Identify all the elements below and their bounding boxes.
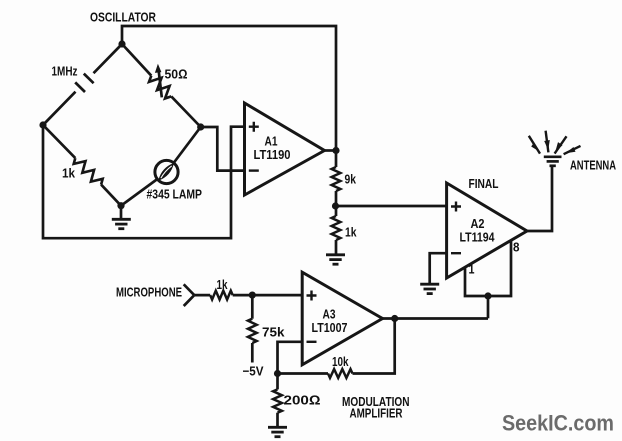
label MODULATION AMPLIFIER <box>342 394 410 421</box>
svg-text:8: 8 <box>513 240 520 255</box>
resistor 10k <box>328 369 353 378</box>
node: 9k/1k junction <box>332 202 339 209</box>
ground (A2 inverting input) <box>420 284 439 293</box>
svg-text:1k: 1k <box>345 225 357 240</box>
wire: junction down to modulation line <box>487 296 490 318</box>
wire: junction to A2 non-inverting input <box>336 205 447 208</box>
wire: mic to 1k <box>194 294 210 297</box>
ground (divider) <box>326 255 345 264</box>
svg-text:LT1007: LT1007 <box>312 320 348 335</box>
wire: A3 output to A2 feedback <box>383 317 489 320</box>
node: mic/75k junction <box>249 292 256 299</box>
svg-text:#345 LAMP: #345 LAMP <box>147 187 203 202</box>
svg-text:LT1194: LT1194 <box>460 230 496 245</box>
svg-text:LT1190: LT1190 <box>254 147 291 162</box>
ground (200Ω) <box>268 427 287 436</box>
wire: A3 inverting input to feedback node <box>278 342 303 374</box>
resistor 1k (divider) <box>332 216 341 240</box>
wire: bridge right node to A1 inverting input <box>201 127 245 171</box>
svg-text:AMPLIFIER: AMPLIFIER <box>350 406 403 421</box>
wire: pin 1 loop <box>465 241 511 297</box>
wire: 1k to ground <box>335 240 338 255</box>
svg-text:MICROPHONE: MICROPHONE <box>116 285 182 300</box>
wire: junction to 75k <box>251 295 254 319</box>
op-amp A3 LT1007 <box>302 272 382 365</box>
svg-text:SeekIC.com: SeekIC.com <box>502 411 614 436</box>
svg-text:OSCILLATOR: OSCILLATOR <box>90 10 156 25</box>
node: A1 output junction <box>332 147 339 154</box>
svg-text:1k: 1k <box>62 166 76 181</box>
microphone connector <box>184 284 194 306</box>
svg-text:1: 1 <box>469 262 475 277</box>
lamp #345 (bridge arm) <box>121 127 201 206</box>
svg-text:50Ω: 50Ω <box>165 67 188 82</box>
potentiometer 50Ω (bridge arm) <box>122 44 201 127</box>
node: bridge bottom <box>117 202 124 209</box>
wire: 200Ω to ground <box>276 413 279 428</box>
antenna symbol <box>544 157 562 166</box>
wire: A2 inverting input to ground <box>430 253 447 284</box>
wire: node to 10k <box>278 372 329 375</box>
wire: 9k to junction <box>335 191 338 216</box>
resistor 9k <box>332 167 341 191</box>
resistor 1k (mic) <box>210 291 233 300</box>
crystal X1 1MHz (bridge arm) <box>43 44 122 125</box>
node: bridge top <box>118 40 125 47</box>
node: A3 output <box>391 315 398 322</box>
wire: A1 non-inverting input to bridge left node (feedback) <box>43 125 245 238</box>
svg-text:−5V: −5V <box>243 364 264 379</box>
node: feedback node (75k/10k/200) <box>274 370 281 377</box>
svg-text:1MHz: 1MHz <box>52 64 78 79</box>
wire: 75k to -5V <box>251 343 254 363</box>
svg-text:FINAL: FINAL <box>469 176 499 191</box>
node: pin1/pin8 junction <box>484 292 491 299</box>
svg-text:10k: 10k <box>332 354 349 369</box>
svg-text:1k: 1k <box>217 277 229 292</box>
svg-text:75k: 75k <box>262 325 285 340</box>
resistor 75k <box>248 319 257 343</box>
ground (bridge bottom) <box>112 219 131 228</box>
wire: bridge bottom to ground <box>120 206 123 220</box>
wire: 1k to A3 non-inverting input <box>233 294 303 297</box>
svg-text:200Ω: 200Ω <box>284 393 321 408</box>
antenna radiation arrows <box>529 131 581 155</box>
wire: A2 output to antenna <box>527 166 552 231</box>
wire: A1 output <box>325 149 337 152</box>
wire: oscillator top feedback loop <box>122 26 336 167</box>
svg-text:ANTENNA: ANTENNA <box>570 158 616 173</box>
node: bridge right <box>197 123 204 130</box>
op-amp A2 LT1194 <box>447 183 527 278</box>
resistor 200Ω <box>273 389 282 412</box>
wire: 10k to A3 output <box>353 319 395 374</box>
node: bridge left <box>39 121 46 128</box>
svg-text:9k: 9k <box>345 172 357 187</box>
resistor 1k (bridge arm) <box>43 125 121 206</box>
wire: node to 200Ω <box>276 374 279 390</box>
op-amp A1 LT1190 <box>245 103 325 195</box>
